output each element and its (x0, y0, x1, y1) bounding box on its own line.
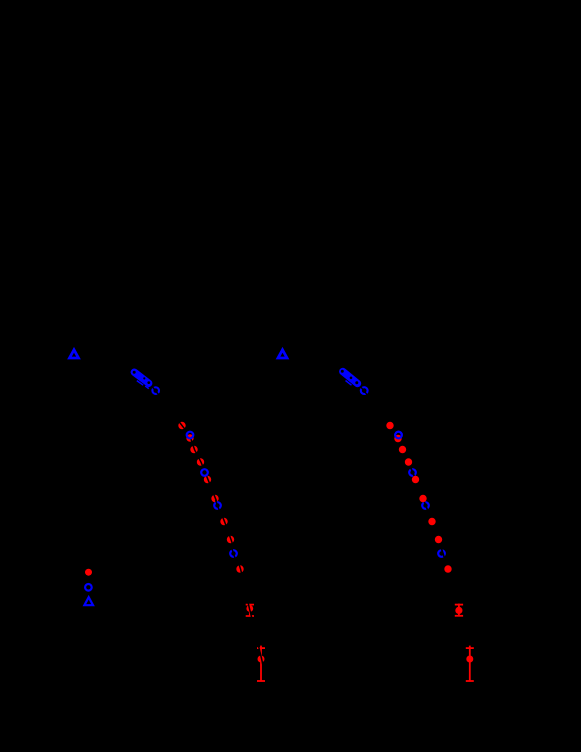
detached blue ring C6r (361, 387, 368, 394)
black data line over right blue rings (390, 426, 448, 570)
blue open-circle markers (right chain) (395, 432, 445, 557)
black slash over ring C6 (153, 387, 159, 395)
stray arc below cluster 2 (145, 386, 149, 389)
red dot R9 (236, 565, 243, 572)
red errorbar E1 (left) (246, 604, 254, 617)
black slash over ring B3 (216, 500, 220, 511)
detached blue ring C6 (152, 387, 159, 394)
red dot R7 (220, 518, 227, 525)
legend blue ring (85, 584, 92, 591)
stray arc below cluster (137, 381, 143, 386)
black slash over red dot R1 (178, 420, 186, 430)
blue ring B1r redrawn on top (395, 432, 402, 439)
blue cluster bar (right): overlapping open circles (341, 370, 368, 395)
blue ring B4r (438, 550, 445, 557)
red dot R3r (399, 446, 406, 453)
red dot R4 (197, 458, 204, 465)
cluster mid hole r (350, 377, 353, 380)
cluster bar r (343, 372, 358, 384)
red data points (left chain) (178, 422, 243, 573)
red dot R5 (204, 476, 211, 483)
red dot R4r (405, 458, 412, 465)
blue ring B4 (230, 550, 237, 557)
stray arc below cluster r (346, 381, 352, 386)
black data line over left red markers (191, 438, 264, 667)
red dot R6 (211, 495, 218, 502)
blue ring B1 (187, 432, 194, 439)
red dot R8 (227, 536, 234, 543)
blue ring B3 (214, 502, 221, 509)
cluster end ring hole r (355, 381, 358, 384)
black cut through cluster lower edge r (344, 378, 355, 387)
blue open-circle markers (left chain) (187, 432, 237, 557)
red dot R1 (178, 422, 185, 429)
cluster mid hole (143, 377, 145, 379)
red dot R3 (190, 446, 197, 453)
cluster first ring hole (133, 371, 136, 374)
black slash over ring B4 (232, 548, 236, 559)
red errorbar E1r (right) (455, 604, 463, 617)
red errorbar E2 (left) (257, 646, 265, 682)
cluster first ring hole r (341, 370, 344, 373)
blue ring B2r (409, 469, 416, 476)
red dot R6r (419, 495, 426, 502)
red data points (right chain) (386, 422, 451, 573)
red dot R7r (428, 518, 435, 525)
cluster bar (134, 372, 148, 383)
legend red dot (85, 569, 92, 576)
red errorbar E2r (right) (466, 646, 474, 682)
cluster end ring hole (147, 381, 150, 384)
blue ring B3r (422, 502, 429, 509)
blue triangle T2 (right) (278, 350, 287, 358)
blue cluster bar (left): overlapping open circles (133, 371, 159, 395)
black slash over ring C6r (361, 387, 367, 394)
black cut through cluster lower edge (136, 379, 148, 388)
blue ring B1r (395, 432, 402, 439)
red dot R8r (435, 536, 442, 543)
red dot R1r (386, 422, 393, 429)
legend blue triangle (84, 597, 93, 605)
red dot R2 (186, 434, 193, 441)
blue ring B2 (201, 469, 208, 476)
red dot R5r (412, 476, 419, 483)
red dot R2r (394, 435, 401, 442)
red dot R9r (444, 565, 451, 572)
blue triangle T1 (left) (70, 350, 79, 358)
